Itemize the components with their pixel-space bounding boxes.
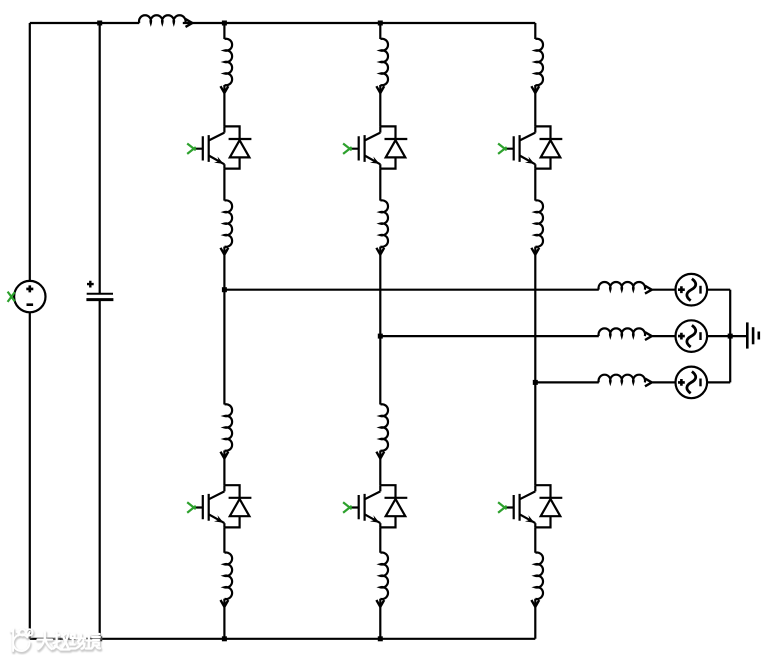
node bottom-leg2 junction — [378, 636, 383, 641]
wire phase A — [224, 289, 730, 291]
ac source A — [676, 274, 708, 306]
IGBT Q5 — [343, 485, 407, 527]
inductor leg1 top — [224, 39, 232, 86]
wire phase B — [380, 335, 747, 337]
inductor phase C — [599, 375, 646, 383]
wire bottom bus — [30, 638, 536, 640]
wire leg2 segments — [379, 23, 381, 639]
inductor leg1 bottom — [224, 553, 232, 600]
ground — [747, 322, 759, 348]
node top-leg2 junction — [378, 21, 383, 26]
IGBT Q6 — [498, 485, 562, 527]
wire leg1 segments — [223, 23, 225, 639]
IGBT Q4 — [187, 485, 251, 527]
inductor leg3 upper-mid — [535, 200, 543, 247]
node bottom-leg1 junction — [222, 636, 227, 641]
watermark text — [38, 632, 101, 651]
IGBT Q1 — [187, 126, 251, 168]
inductor leg1 upper-mid — [224, 200, 232, 247]
inductor leg2 top — [380, 39, 388, 86]
wire top bus — [30, 22, 536, 24]
node phase B tap — [378, 334, 383, 339]
wire leg3 segments — [534, 23, 536, 639]
ac source B — [676, 320, 708, 352]
inductor leg2 lower-mid — [380, 404, 388, 451]
inductor L_dc — [139, 15, 186, 23]
node top-leg1 junction — [222, 21, 227, 26]
wire phase C — [535, 381, 730, 383]
inductor leg3 bottom — [535, 553, 543, 600]
node top-cap junction — [97, 21, 102, 26]
capacitor C1 — [86, 23, 113, 639]
inductor leg2 upper-mid — [380, 200, 388, 247]
inductor leg2 bottom — [380, 553, 388, 600]
inductor leg1 lower-mid — [224, 404, 232, 451]
node phase A tap — [222, 287, 227, 292]
inductor phase B — [599, 328, 646, 336]
watermark logo — [11, 629, 33, 652]
node bottom-cap junction — [97, 636, 102, 641]
ac source C — [676, 367, 708, 399]
wire right bus — [729, 290, 731, 383]
voltage source V1 — [8, 281, 46, 312]
IGBT Q3 — [498, 126, 562, 168]
IGBT Q2 — [343, 126, 407, 168]
node phase C tap — [533, 380, 538, 385]
wire left rail — [29, 23, 31, 639]
node right bus junction — [728, 334, 733, 339]
inductor leg3 top — [535, 39, 543, 86]
inductor phase A — [599, 282, 646, 290]
